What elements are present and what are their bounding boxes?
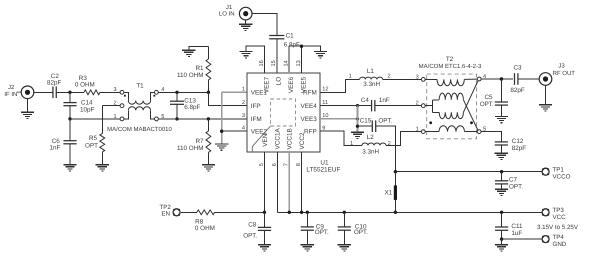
wire C15 to VCCO rail	[376, 126, 396, 172]
transformer T2 body	[427, 74, 477, 139]
wire VEE4	[320, 105, 358, 107]
test point TP1	[542, 167, 570, 181]
wire C1 to LO pin	[276, 39, 278, 73]
transformer T2 crossover	[463, 81, 478, 131]
svg-text:VEN: VEN	[262, 133, 269, 147]
svg-text:T1: T1	[136, 83, 144, 90]
U1 exposed pad	[252, 99, 295, 152]
ground (R7)	[202, 165, 215, 171]
U1 pin 13 label	[296, 60, 308, 93]
svg-text:VEE5: VEE5	[300, 76, 307, 93]
U1 pin 10 label	[300, 113, 328, 123]
node VEE2	[220, 130, 223, 133]
wire T1 pin 5 to IFM	[158, 118, 247, 120]
node VEE4	[356, 104, 359, 107]
svg-text:VCC: VCC	[553, 214, 567, 221]
svg-text:VCC2: VCC2	[299, 132, 306, 149]
svg-text:2: 2	[416, 101, 419, 107]
node C13 top	[175, 91, 178, 94]
test point TP2	[159, 204, 180, 218]
svg-text:L1: L1	[367, 68, 375, 75]
capacitor C3	[510, 65, 525, 94]
svg-text:VEE4: VEE4	[300, 103, 317, 110]
capacitor C1	[269, 33, 300, 49]
wire VCC1B down	[288, 152, 290, 212]
transformer T2 winding A	[425, 79, 477, 86]
svg-text:C7: C7	[509, 177, 518, 184]
transformer T2 pin 5	[477, 127, 486, 134]
ground (C12)	[495, 153, 508, 159]
wire VEE2	[222, 130, 247, 132]
ground (R1)	[182, 50, 195, 56]
ground (C7)	[495, 189, 508, 195]
node C13 bottom	[175, 117, 178, 120]
wire T2 pin 5 to C12	[481, 132, 501, 142]
ground (C10)	[338, 245, 351, 251]
capacitor C8	[243, 212, 271, 239]
wire C6 to ground	[69, 144, 71, 165]
transformer T2 pin 4	[477, 74, 486, 81]
capacitor C12	[495, 138, 527, 152]
wire jog to IFP	[208, 92, 246, 105]
wire L2 to T2 pin 1	[386, 132, 421, 146]
wire to TP4	[502, 238, 542, 240]
wire RFM to L1	[320, 79, 360, 92]
U1 pin 4 label	[242, 126, 268, 136]
node C10	[343, 211, 346, 214]
capacitor C2	[47, 73, 62, 98]
svg-text:LT5521EUF: LT5521EUF	[306, 167, 340, 174]
transformer T1 pin 1	[113, 114, 123, 121]
node VEN	[263, 211, 266, 214]
capacitor C7	[495, 172, 523, 191]
svg-text:MA/COM MABACT0010: MA/COM MABACT0010	[107, 126, 172, 133]
svg-text:3: 3	[242, 113, 245, 119]
wire VEN down	[264, 152, 266, 212]
svg-text:J2: J2	[8, 84, 15, 91]
node R7	[207, 117, 210, 120]
node B	[68, 117, 71, 120]
svg-text:C12: C12	[512, 138, 524, 145]
svg-text:1: 1	[350, 141, 353, 147]
capacitor C4	[358, 97, 390, 112]
svg-text:OPT.: OPT.	[315, 229, 329, 236]
svg-text:4: 4	[242, 126, 245, 132]
svg-text:C11: C11	[511, 223, 523, 230]
node C15 tap	[356, 125, 359, 128]
capacitor C11	[495, 212, 523, 237]
svg-text:2: 2	[242, 100, 245, 106]
resistor R5	[85, 106, 105, 165]
ground (J3)	[539, 85, 552, 111]
wire J2 to C2	[34, 91, 53, 93]
node X1 top	[394, 170, 397, 173]
U1 pin 15 label	[271, 60, 283, 85]
svg-text:C8: C8	[248, 222, 257, 229]
node A	[68, 91, 71, 94]
ground (C6)	[63, 165, 76, 171]
U1 pin 16 label	[259, 60, 271, 93]
wire T1 pin 4 to R1 node	[158, 91, 208, 93]
wire C8 to ground	[264, 230, 266, 244]
U1 pin 3 label	[242, 113, 262, 123]
resistor R3	[70, 75, 120, 95]
VCC rail	[278, 211, 542, 213]
svg-text:15: 15	[271, 60, 277, 66]
transformer T1 pin 5	[155, 114, 165, 121]
polarity dot T1 right	[153, 95, 155, 97]
svg-text:OPT.: OPT.	[378, 117, 392, 124]
svg-text:R7: R7	[195, 138, 204, 145]
svg-text:3: 3	[416, 74, 419, 80]
node VEE3	[356, 117, 359, 120]
capacitor C6	[50, 138, 77, 152]
svg-text:C14: C14	[81, 100, 93, 107]
U1 pin 9 label	[304, 126, 325, 136]
svg-text:EN: EN	[161, 211, 170, 218]
inductor L2	[350, 134, 391, 156]
capacitor C9	[301, 212, 329, 236]
U1 pin 8 label	[296, 132, 306, 166]
svg-text:1nF: 1nF	[379, 97, 390, 104]
node VEE5	[300, 45, 303, 48]
label supply range	[537, 224, 579, 231]
capacitor C14	[63, 100, 94, 114]
node C7	[500, 170, 503, 173]
svg-text:110 OHM: 110 OHM	[177, 145, 203, 152]
svg-text:1: 1	[349, 74, 352, 80]
transformer T1 pin 2	[113, 101, 123, 108]
ground (C9)	[301, 245, 314, 251]
svg-text:82pF: 82pF	[510, 87, 525, 94]
svg-text:C4: C4	[361, 97, 370, 104]
U1 pin 2 label	[242, 100, 261, 110]
svg-text:VEE3: VEE3	[300, 116, 317, 123]
U1 pin 6 label	[272, 127, 282, 166]
svg-text:3: 3	[113, 87, 116, 93]
wire node B to T1 pin 1	[70, 118, 120, 120]
ground (C5)	[495, 116, 508, 122]
wire C10 to ground	[343, 230, 345, 244]
wire VCC2 down	[301, 152, 303, 212]
svg-text:0 OHM: 0 OHM	[75, 81, 95, 88]
resistor R7	[177, 119, 211, 165]
resistor R8	[181, 210, 265, 232]
svg-text:82pF: 82pF	[47, 80, 62, 87]
svg-text:GND: GND	[553, 241, 567, 248]
svg-text:LO IN: LO IN	[219, 10, 235, 17]
test point TP3	[542, 207, 566, 221]
wire L1 to T2 pin 3	[383, 78, 422, 80]
svg-text:10pF: 10pF	[80, 107, 95, 114]
svg-text:LO: LO	[276, 77, 283, 86]
connector J3 (RF OUT)	[539, 62, 575, 85]
svg-text:2: 2	[388, 141, 391, 147]
connector J1 (LO IN)	[219, 4, 252, 20]
wire node B down	[69, 119, 71, 141]
node C5	[500, 77, 503, 80]
net VEE12 vertical	[221, 92, 223, 144]
wire VCC1A down	[277, 152, 279, 212]
wire C2 to node A	[56, 91, 70, 93]
ground (VEE3/VEE4)	[351, 132, 364, 138]
ground (VEE1/VEE2)	[215, 144, 228, 150]
wire RFP to L2	[320, 131, 362, 145]
svg-text:82pF: 82pF	[512, 145, 527, 152]
svg-text:3.3nH: 3.3nH	[362, 149, 379, 156]
svg-text:RFP: RFP	[304, 128, 317, 135]
svg-text:6.8pF: 6.8pF	[284, 41, 300, 48]
capacitor C13	[170, 92, 201, 119]
node TP4	[500, 237, 503, 240]
transformer T2 winding C	[425, 126, 477, 132]
wire VEE3	[320, 118, 358, 120]
svg-text:IFP: IFP	[251, 103, 261, 110]
node R1	[207, 91, 210, 94]
node C9	[306, 211, 309, 214]
svg-text:J3: J3	[558, 62, 565, 69]
svg-text:R5: R5	[89, 135, 98, 142]
svg-text:2: 2	[388, 74, 391, 80]
svg-text:OPT.: OPT.	[480, 101, 494, 108]
node C11	[500, 211, 503, 214]
svg-text:J1: J1	[226, 4, 233, 11]
ground (VEE7)	[239, 52, 252, 58]
resistor R1	[177, 46, 211, 92]
svg-text:11: 11	[322, 100, 328, 106]
U1 pin 5 label	[259, 133, 269, 166]
wire C3 to J3	[518, 78, 539, 80]
net VEE34 vertical	[357, 106, 359, 132]
wire VEE1	[222, 91, 247, 93]
wire T2 pin 4 to C3	[481, 78, 513, 80]
ground (J1)	[239, 20, 252, 31]
transformer T2 pin 3	[416, 74, 426, 81]
svg-text:VCC1B: VCC1B	[287, 128, 294, 149]
capacitor C15	[358, 117, 393, 132]
ground (C11)	[495, 239, 508, 251]
svg-text:T2: T2	[446, 56, 454, 63]
wire node A down	[69, 92, 71, 102]
svg-text:X1: X1	[384, 190, 392, 197]
transformer T1 pin 3	[113, 87, 123, 94]
svg-text:VCCO: VCCO	[553, 173, 571, 180]
wire C9 to ground	[306, 230, 308, 244]
op-amp U1 LT5521EUF body	[247, 73, 340, 174]
svg-text:VEE6: VEE6	[288, 76, 295, 93]
wire C5 to ground	[500, 105, 502, 116]
svg-text:C1: C1	[286, 33, 295, 40]
svg-text:R1: R1	[195, 65, 204, 72]
svg-text:IFM: IFM	[251, 116, 262, 123]
node X1 bottom	[394, 211, 397, 214]
svg-text:MA/COM ETC1.6-4-2-3: MA/COM ETC1.6-4-2-3	[419, 63, 482, 70]
wire J1 to C1	[252, 14, 277, 36]
ground (VEE5/VEE6)	[314, 52, 327, 58]
svg-text:12: 12	[322, 87, 328, 93]
svg-text:VEE7: VEE7	[263, 76, 270, 93]
svg-text:110 OHM: 110 OHM	[177, 72, 203, 79]
svg-text:1: 1	[113, 114, 116, 120]
capacitor C10	[338, 212, 368, 236]
svg-text:C5: C5	[484, 94, 493, 101]
svg-text:C3: C3	[513, 65, 522, 72]
svg-text:L2: L2	[367, 134, 375, 141]
wire C12 to ground	[500, 145, 502, 153]
svg-text:9: 9	[322, 126, 325, 132]
inductor L1	[349, 68, 391, 88]
svg-text:3.3nH: 3.3nH	[363, 81, 380, 88]
ground (J2)	[21, 99, 34, 119]
svg-text:RF OUT: RF OUT	[553, 70, 576, 77]
transformer T2 label	[419, 56, 482, 70]
transformer T1 secondary winding	[124, 107, 155, 119]
svg-text:3.15V to 5.25V: 3.15V to 5.25V	[537, 224, 579, 231]
wire T1 pin2 jog	[102, 105, 120, 107]
svg-text:1: 1	[242, 87, 245, 93]
ground (R5)	[96, 165, 109, 171]
component X1	[384, 172, 397, 213]
svg-text:VCC1A: VCC1A	[275, 127, 282, 149]
svg-text:OPT.: OPT.	[509, 184, 523, 191]
test point TP4	[542, 234, 567, 248]
svg-text:1: 1	[416, 127, 419, 133]
transformer T1 label	[107, 83, 172, 134]
svg-text:IF IN: IF IN	[4, 91, 17, 98]
polarity dot T1 left	[124, 95, 126, 97]
transformer T1 primary winding	[124, 92, 155, 104]
svg-text:0 OHM: 0 OHM	[195, 225, 215, 232]
transformer T2 winding B	[425, 93, 463, 119]
wire VEE6/VEE5 to ground	[289, 46, 320, 73]
U1 pin 11 label	[300, 100, 328, 110]
U1 pin 14 label	[283, 60, 295, 93]
node VCC1B	[288, 211, 291, 214]
node VCC2	[300, 211, 303, 214]
capacitor C5	[480, 79, 508, 108]
svg-text:6.8pF: 6.8pF	[184, 104, 200, 111]
polarity dot T2 right	[470, 121, 473, 124]
transformer T2 pin 1	[416, 127, 426, 134]
connector J2 (IF IN)	[4, 84, 33, 99]
svg-text:6: 6	[272, 163, 278, 166]
svg-text:1uF: 1uF	[511, 230, 522, 237]
wire C4 to T2 pin 2	[375, 105, 422, 107]
transformer T1 pin 4	[155, 87, 165, 94]
svg-text:C15: C15	[360, 117, 372, 124]
U1 pin 1 label	[242, 87, 268, 97]
transformer T2 pin 2	[416, 101, 426, 108]
svg-text:1nF: 1nF	[50, 144, 61, 151]
wire C7 to ground	[501, 184, 503, 189]
VCCO rail	[395, 171, 541, 173]
wire VEE7 to ground	[246, 46, 264, 73]
svg-text:OPT: OPT	[85, 142, 98, 149]
svg-text:OPT.: OPT.	[243, 232, 257, 239]
ground (C8)	[258, 245, 271, 251]
polarity dot T2 left	[429, 121, 432, 124]
wire C14 to node B	[69, 106, 71, 119]
U1 pin 12 label	[303, 87, 329, 97]
svg-text:OPT.: OPT.	[354, 229, 368, 236]
U1 pin 7 label	[284, 128, 294, 166]
wire C11 to TP4 node	[501, 230, 503, 239]
